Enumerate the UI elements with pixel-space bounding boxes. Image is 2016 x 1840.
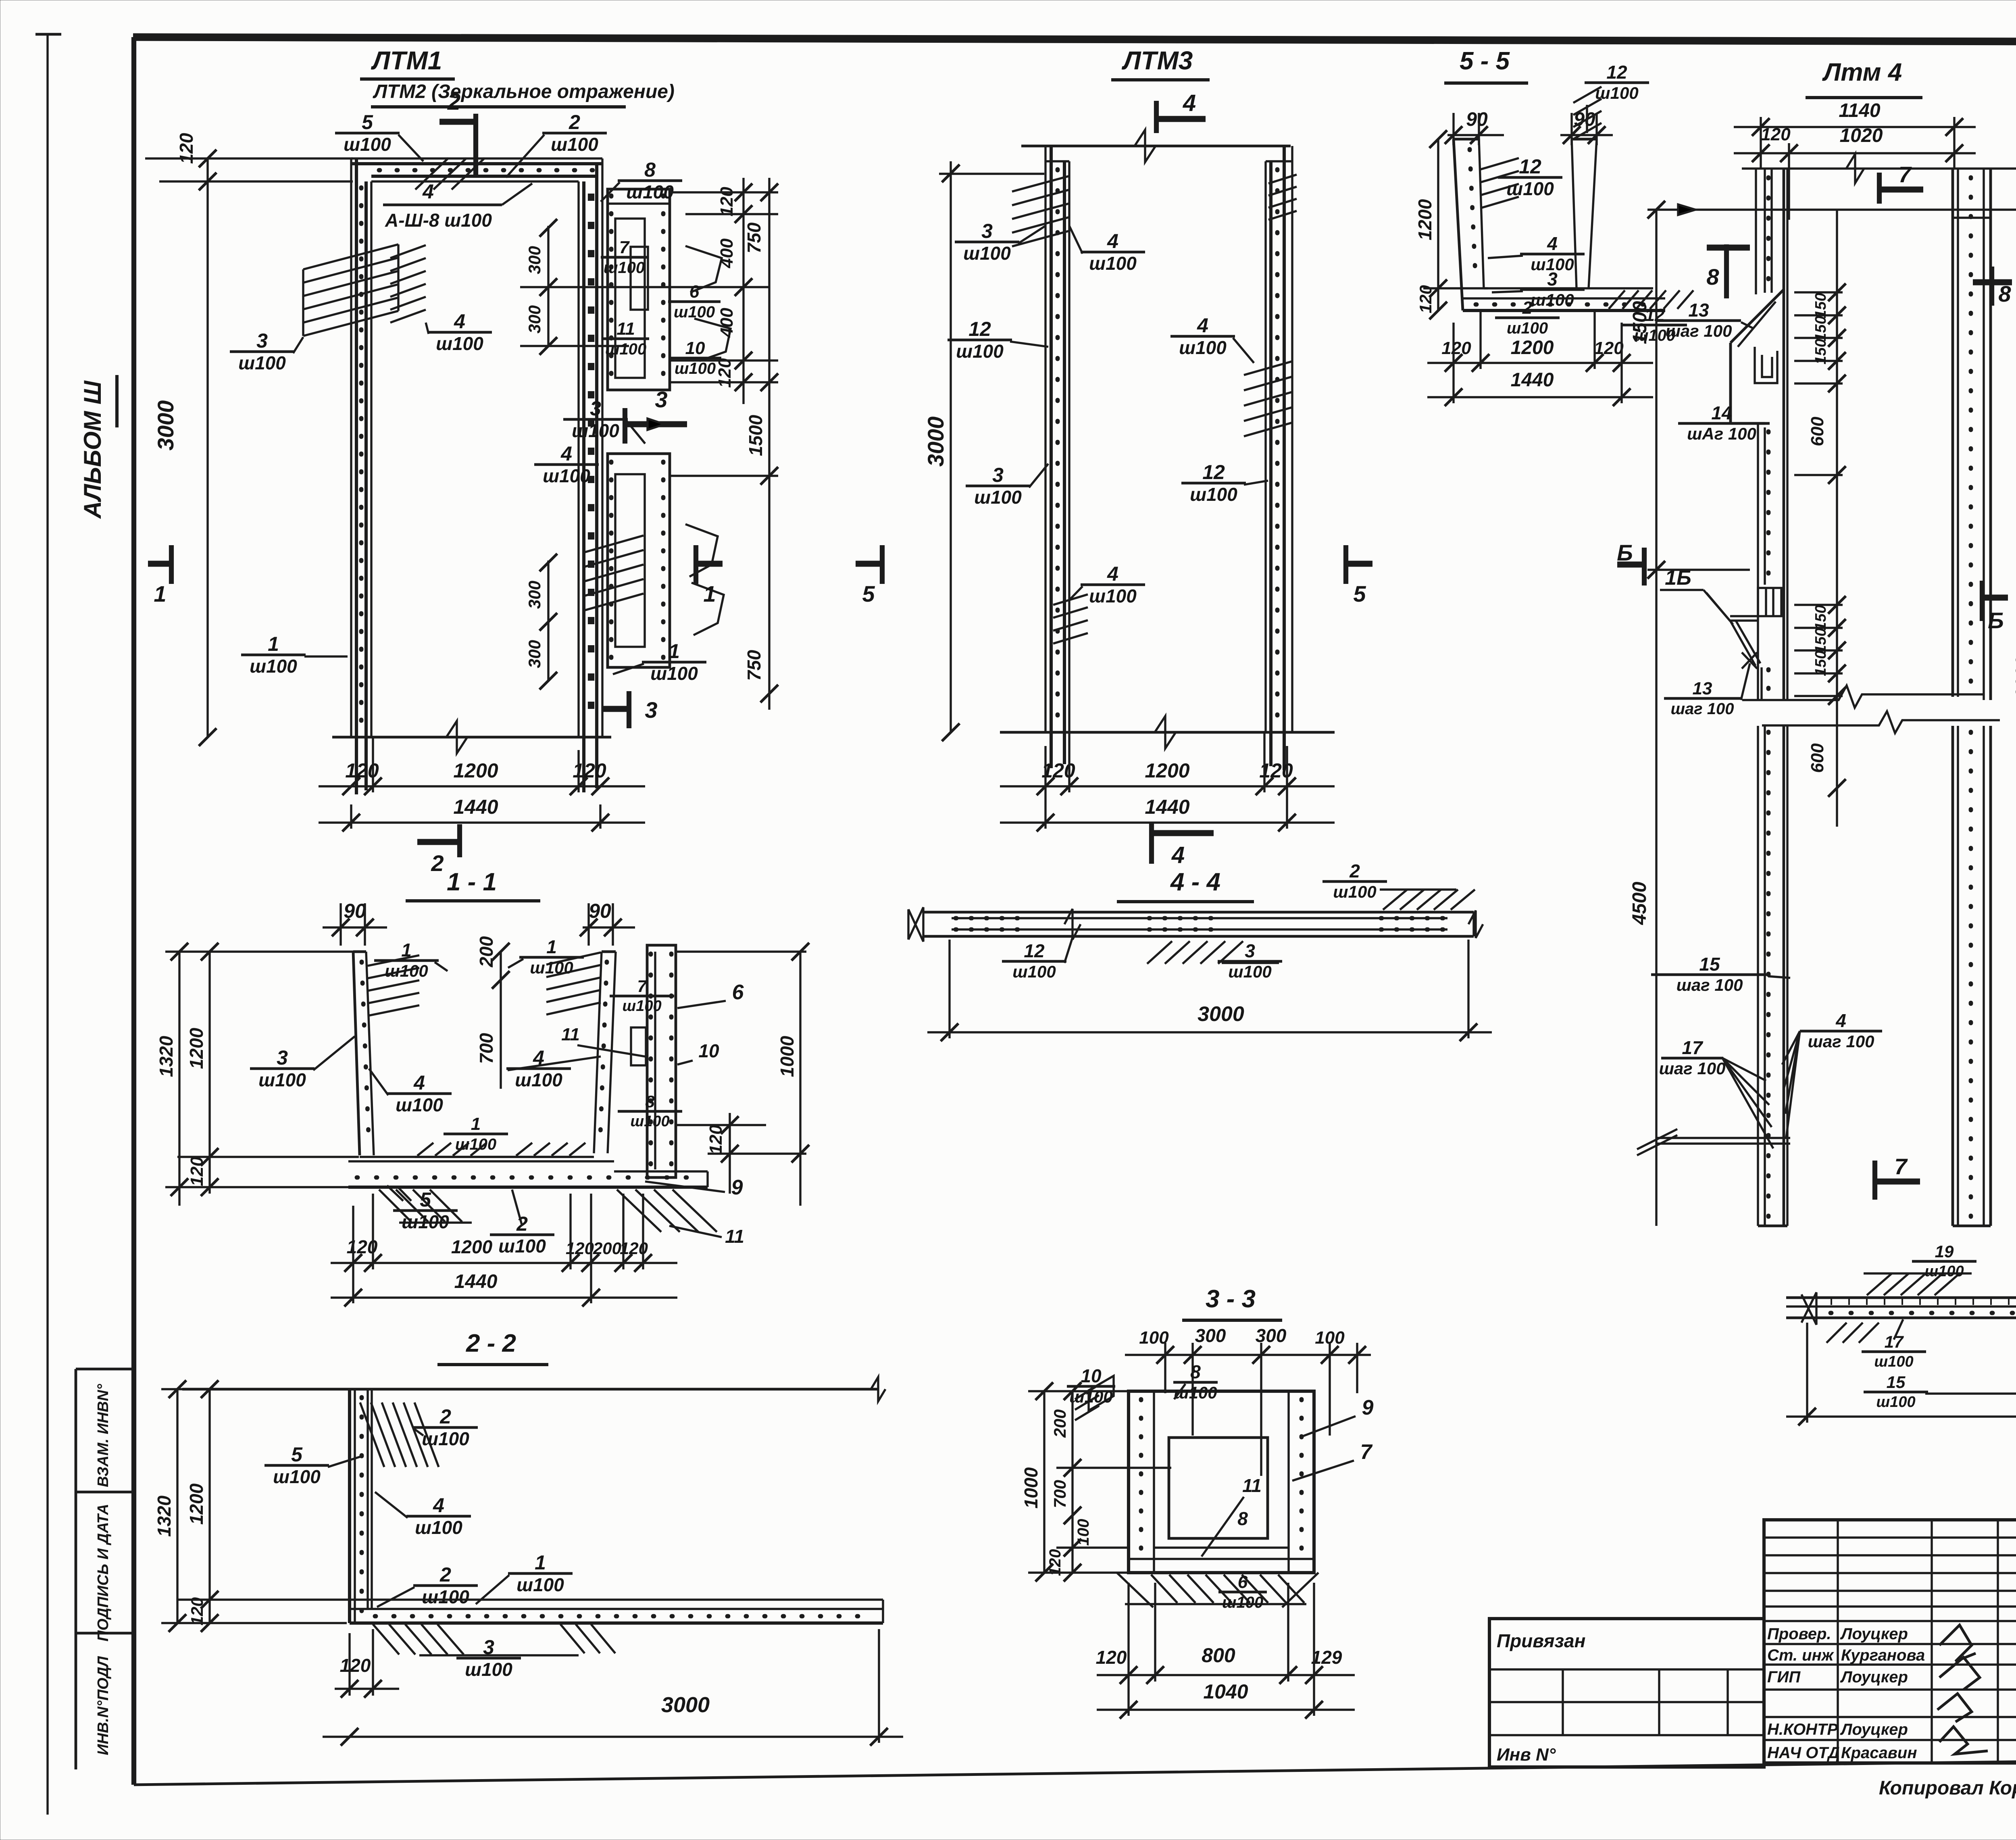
svg-text:120: 120 bbox=[340, 1655, 371, 1676]
svg-text:1 - 1: 1 - 1 bbox=[447, 868, 497, 896]
LTM4 left wall below break bbox=[1757, 726, 1759, 1226]
svg-text:300: 300 bbox=[525, 581, 544, 609]
svg-text:шаг 100: шаг 100 bbox=[1808, 1032, 1874, 1051]
svg-text:11: 11 bbox=[561, 1025, 580, 1044]
svg-text:4 - 4: 4 - 4 bbox=[1170, 868, 1220, 896]
svg-text:11: 11 bbox=[1242, 1475, 1262, 1496]
svg-text:800: 800 bbox=[1202, 1644, 1235, 1667]
svg-text:3: 3 bbox=[655, 387, 667, 412]
svg-text:ш100: ш100 bbox=[250, 656, 297, 677]
svg-text:11: 11 bbox=[725, 1226, 744, 1247]
svg-text:11: 11 bbox=[616, 319, 635, 339]
LTM1 right dim chain inner bbox=[742, 178, 744, 404]
svg-text:4: 4 bbox=[413, 1071, 425, 1094]
LTM1 bottom dim line 1 bbox=[319, 785, 645, 787]
hatch bundle LTM3 right top bbox=[1268, 175, 1297, 183]
signature scribbles bbox=[1939, 1625, 1976, 1661]
below slab hatch right step bbox=[617, 1190, 661, 1232]
svg-text:5: 5 bbox=[362, 111, 373, 133]
svg-text:13: 13 bbox=[1693, 679, 1712, 698]
svg-text:ш100: ш100 bbox=[1876, 1394, 1915, 1411]
svg-text:600: 600 bbox=[1808, 417, 1827, 446]
svg-text:НАЧ ОТД: НАЧ ОТД bbox=[1767, 1744, 1840, 1762]
svg-text:ш100: ш100 bbox=[543, 465, 590, 486]
svg-text:ш100: ш100 bbox=[455, 1136, 496, 1153]
LTM1 right upper small insert bbox=[631, 247, 648, 310]
svg-text:ш100: ш100 bbox=[650, 663, 698, 684]
section flag 8 right bbox=[1989, 267, 1994, 306]
svg-text:1200: 1200 bbox=[186, 1027, 207, 1069]
svg-text:3000: 3000 bbox=[923, 417, 948, 467]
svg-text:1320: 1320 bbox=[156, 1036, 177, 1077]
svg-text:Лоуцкер: Лоуцкер bbox=[1840, 1721, 1908, 1738]
svg-text:Привязан: Привязан bbox=[1497, 1630, 1585, 1651]
svg-text:7: 7 bbox=[637, 977, 647, 996]
svg-text:1000: 1000 bbox=[777, 1036, 798, 1077]
svg-text:2 - 2: 2 - 2 bbox=[466, 1329, 516, 1357]
svg-text:2: 2 bbox=[439, 1405, 451, 1428]
hatch 4-4 mid bbox=[1147, 941, 1172, 964]
privyazan box bbox=[1489, 1619, 1764, 1767]
1-1 left dim chain outer bbox=[178, 952, 180, 1206]
svg-text:ш100: ш100 bbox=[422, 1428, 469, 1449]
svg-text:1200: 1200 bbox=[1511, 337, 1554, 358]
LTM3 left wall bbox=[1044, 146, 1046, 732]
svg-text:ш100: ш100 bbox=[1179, 337, 1227, 358]
svg-text:400: 400 bbox=[717, 238, 737, 269]
svg-text:ш100: ш100 bbox=[630, 1113, 669, 1130]
section flag 2 bottom bbox=[417, 839, 460, 845]
1-1 right wall bbox=[594, 952, 602, 1153]
title block signature rows bbox=[1764, 1643, 2016, 1645]
svg-text:3: 3 bbox=[590, 397, 601, 420]
section flag 2 top bbox=[439, 119, 476, 125]
svg-text:1: 1 bbox=[703, 581, 716, 606]
svg-text:шаг 100: шаг 100 bbox=[1677, 975, 1743, 994]
svg-text:1: 1 bbox=[471, 1114, 481, 1134]
svg-text:АЛЬБОМ Ш: АЛЬБОМ Ш bbox=[79, 380, 106, 519]
svg-text:4: 4 bbox=[422, 180, 434, 203]
LTM4 left dim chain bbox=[1655, 210, 1657, 1226]
svg-text:ш100: ш100 bbox=[605, 340, 646, 358]
3-3 top left insert bbox=[1089, 1376, 1114, 1411]
corner registration mark bbox=[35, 33, 61, 36]
4-4 left break bbox=[908, 907, 923, 942]
svg-text:12: 12 bbox=[968, 318, 991, 340]
hatch 5-5 floor right bbox=[1609, 290, 1625, 309]
svg-text:8: 8 bbox=[1190, 1361, 1201, 1382]
svg-text:1: 1 bbox=[546, 936, 557, 957]
section flag 5 right bbox=[1346, 561, 1372, 567]
svg-text:14: 14 bbox=[1711, 402, 1732, 423]
LTM3 ground line bbox=[1000, 731, 1335, 734]
svg-text:ш100: ш100 bbox=[1924, 1263, 1964, 1280]
svg-text:3000: 3000 bbox=[661, 1693, 710, 1717]
svg-text:ш100: ш100 bbox=[1089, 586, 1137, 606]
svg-text:ш100: ш100 bbox=[465, 1659, 512, 1680]
LTM1 right lower box inner bbox=[615, 474, 645, 647]
svg-text:2: 2 bbox=[431, 850, 444, 876]
svg-text:Провер.: Провер. bbox=[1767, 1625, 1831, 1643]
left margin stamp boxes bbox=[75, 1369, 77, 1769]
LTM4 right wall bbox=[1951, 169, 1954, 697]
LTM1 dim 120 top left bbox=[199, 173, 217, 190]
svg-text:3: 3 bbox=[277, 1046, 288, 1069]
below slab hatch left bbox=[379, 1190, 411, 1222]
border frame bbox=[133, 37, 2016, 43]
svg-text:12: 12 bbox=[1606, 62, 1627, 83]
svg-text:120: 120 bbox=[706, 1125, 726, 1154]
svg-text:1140: 1140 bbox=[1839, 100, 1881, 121]
svg-text:шаг 100: шаг 100 bbox=[1666, 321, 1732, 340]
svg-text:ш100: ш100 bbox=[1069, 1387, 1112, 1406]
svg-text:1200: 1200 bbox=[1414, 199, 1435, 240]
svg-text:ш100: ш100 bbox=[238, 352, 286, 373]
3-3 floor lines bbox=[1129, 1558, 1314, 1560]
hatch bundle 1-1 top left bbox=[368, 955, 419, 966]
svg-text:3: 3 bbox=[1547, 269, 1558, 290]
5-5 left wall bbox=[1454, 139, 1463, 310]
LTM1 inner 300 dim chain upper bbox=[547, 226, 549, 347]
5-5 floor bbox=[1484, 287, 1653, 289]
svg-text:1: 1 bbox=[154, 581, 166, 606]
LTM3 top line bbox=[1021, 145, 1291, 148]
svg-text:ИНВ.N°ПОДЛ: ИНВ.N°ПОДЛ bbox=[95, 1656, 112, 1755]
section flag B right bbox=[1980, 581, 1985, 621]
5-5 right wall bbox=[1589, 139, 1597, 288]
section flag B left bbox=[1642, 548, 1647, 586]
svg-text:ш100: ш100 bbox=[604, 259, 645, 277]
LTM1 right lower box outer bbox=[608, 454, 670, 667]
svg-text:Н.КОНТР: Н.КОНТР bbox=[1767, 1721, 1838, 1738]
LTM4 left wall lower bbox=[1757, 423, 1759, 700]
4-4 right end bbox=[1472, 912, 1475, 936]
svg-text:150: 150 bbox=[1812, 339, 1829, 364]
LTM1 right wall bbox=[577, 181, 579, 737]
hatch bundle rebar 3 bbox=[303, 244, 398, 269]
section flag 3 right bbox=[625, 421, 687, 427]
svg-text:6: 6 bbox=[1238, 1572, 1248, 1592]
svg-text:3: 3 bbox=[256, 329, 268, 352]
svg-text:17: 17 bbox=[1682, 1037, 1704, 1058]
svg-text:Лтм 4: Лтм 4 bbox=[1822, 58, 1902, 86]
svg-text:ш100: ш100 bbox=[1531, 290, 1574, 309]
svg-text:120: 120 bbox=[1441, 338, 1471, 358]
svg-text:ш100: ш100 bbox=[422, 1586, 469, 1607]
svg-text:ш100: ш100 bbox=[956, 341, 1004, 362]
svg-text:13: 13 bbox=[1688, 300, 1709, 321]
svg-text:12: 12 bbox=[1519, 155, 1541, 178]
section flag 4 top bbox=[1154, 101, 1159, 133]
svg-text:3 - 3: 3 - 3 bbox=[1206, 1285, 1256, 1313]
svg-text:ш100: ш100 bbox=[551, 134, 598, 155]
svg-text:9: 9 bbox=[1362, 1396, 1374, 1419]
LTM4 corbel 2 bbox=[1730, 615, 1757, 617]
svg-text:120: 120 bbox=[187, 1597, 206, 1625]
svg-text:ш100: ш100 bbox=[1012, 962, 1056, 981]
svg-text:ш100: ш100 bbox=[674, 303, 715, 321]
sheet margin line left bbox=[46, 34, 48, 1815]
svg-text:8: 8 bbox=[645, 1092, 655, 1111]
section flag 1 left bbox=[148, 561, 171, 567]
svg-text:ш100: ш100 bbox=[344, 134, 391, 155]
svg-text:ш100: ш100 bbox=[622, 998, 661, 1015]
svg-text:150: 150 bbox=[1812, 628, 1829, 653]
svg-text:5: 5 bbox=[291, 1443, 303, 1466]
svg-text:ш100: ш100 bbox=[1507, 319, 1548, 337]
svg-text:1200: 1200 bbox=[1145, 759, 1189, 782]
svg-text:200: 200 bbox=[1050, 1409, 1069, 1438]
svg-text:4: 4 bbox=[1547, 233, 1558, 254]
svg-text:15: 15 bbox=[1887, 1373, 1906, 1392]
svg-text:1320: 1320 bbox=[154, 1495, 175, 1537]
svg-text:150: 150 bbox=[1812, 605, 1829, 630]
1-1 floor hatch strip bbox=[417, 1143, 433, 1156]
svg-text:ш100: ш100 bbox=[273, 1466, 321, 1487]
1-1 left dim chain inner bbox=[208, 952, 210, 1194]
svg-text:Лоуцкер: Лоуцкер bbox=[1840, 1625, 1908, 1643]
svg-text:ш100: ш100 bbox=[626, 181, 674, 202]
svg-text:6: 6 bbox=[732, 981, 744, 1004]
svg-text:2: 2 bbox=[1349, 861, 1360, 881]
svg-text:ш100: ш100 bbox=[1874, 1353, 1913, 1370]
svg-text:5: 5 bbox=[420, 1188, 431, 1211]
svg-text:3000: 3000 bbox=[1198, 1002, 1244, 1026]
3-3 below hatch bbox=[1151, 1575, 1177, 1603]
svg-text:1440: 1440 bbox=[453, 796, 498, 818]
svg-text:4: 4 bbox=[1107, 563, 1118, 585]
LTM4 break lines bbox=[1742, 686, 1984, 708]
svg-text:1: 1 bbox=[669, 640, 680, 663]
svg-text:1500: 1500 bbox=[1629, 301, 1651, 344]
svg-text:1500: 1500 bbox=[745, 415, 766, 456]
hatch bundle rebar 4 bbox=[390, 245, 426, 258]
svg-text:2: 2 bbox=[1522, 298, 1533, 318]
svg-text:2: 2 bbox=[439, 1563, 451, 1586]
LTM4 mid dim chain bbox=[1836, 210, 1838, 827]
svg-text:ПОДПИСЬ И ДАТА: ПОДПИСЬ И ДАТА bbox=[95, 1504, 112, 1642]
hatch bundle mid bbox=[584, 536, 644, 552]
svg-text:7: 7 bbox=[619, 238, 630, 257]
svg-text:1: 1 bbox=[535, 1551, 546, 1574]
svg-text:400: 400 bbox=[717, 308, 737, 338]
LTM1 left wall bbox=[350, 158, 352, 737]
svg-text:2: 2 bbox=[569, 111, 580, 133]
1-1 left wall bbox=[353, 952, 360, 1155]
svg-text:5: 5 bbox=[1353, 581, 1366, 606]
svg-text:шАг 100: шАг 100 bbox=[1687, 424, 1756, 443]
svg-text:600: 600 bbox=[1808, 743, 1827, 773]
svg-text:1200: 1200 bbox=[186, 1483, 207, 1525]
svg-text:6000: 6000 bbox=[2012, 656, 2016, 699]
svg-text:Лоуцкер: Лоуцкер bbox=[1840, 1668, 1908, 1686]
LTM3 right wall bbox=[1264, 161, 1266, 732]
hatch 4-4 top right bbox=[1383, 890, 1407, 910]
section flag 1 right bbox=[696, 561, 723, 567]
svg-text:ш100: ш100 bbox=[974, 487, 1022, 508]
svg-text:300: 300 bbox=[525, 246, 544, 274]
svg-text:5: 5 bbox=[862, 581, 875, 606]
LTM1 right upper box inner bbox=[615, 219, 645, 378]
title block signature columns bbox=[1764, 1520, 2016, 1763]
LTM4 corbel stirrup bbox=[1755, 347, 1777, 383]
LTM4 left wall upper bbox=[1755, 169, 1757, 294]
svg-text:4: 4 bbox=[1171, 842, 1185, 868]
svg-text:120: 120 bbox=[1761, 125, 1791, 144]
svg-text:7: 7 bbox=[1360, 1440, 1373, 1464]
LTM1 top wall hatch marks bbox=[415, 158, 448, 190]
3-3 below hatch wings bbox=[1117, 1573, 1153, 1607]
svg-text:Ст. инж: Ст. инж bbox=[1767, 1646, 1835, 1664]
svg-text:ш100: ш100 bbox=[258, 1069, 306, 1090]
svg-text:4500: 4500 bbox=[1629, 881, 1650, 925]
hatch bundle LTM3 right mid bbox=[1244, 361, 1292, 375]
svg-text:ЛТМ3: ЛТМ3 bbox=[1122, 46, 1193, 75]
svg-text:750: 750 bbox=[744, 222, 764, 253]
svg-text:300: 300 bbox=[525, 640, 544, 668]
svg-text:ш100: ш100 bbox=[402, 1211, 449, 1232]
svg-text:1200: 1200 bbox=[453, 759, 498, 782]
extension verticals bottom bbox=[350, 804, 352, 829]
svg-text:ш100: ш100 bbox=[530, 958, 573, 977]
hatch 2-2 wall top bbox=[360, 1402, 384, 1467]
1-1 floor slab bbox=[360, 1156, 594, 1158]
LTM1 top wall bbox=[351, 157, 602, 159]
svg-text:90: 90 bbox=[589, 900, 611, 922]
hatch 2-2 below floor bbox=[373, 1624, 399, 1655]
3-3 left dim chains bbox=[1043, 1391, 1045, 1573]
svg-text:1440: 1440 bbox=[454, 1271, 498, 1292]
svg-text:3: 3 bbox=[1245, 940, 1255, 961]
2-2 right end break bbox=[871, 1377, 885, 1401]
svg-text:ш100: ш100 bbox=[498, 1236, 546, 1257]
svg-text:129: 129 bbox=[1311, 1647, 1342, 1668]
svg-text:3: 3 bbox=[981, 220, 993, 242]
svg-text:150: 150 bbox=[1812, 316, 1829, 341]
svg-text:шаг 100: шаг 100 bbox=[1670, 700, 1734, 718]
svg-text:2: 2 bbox=[447, 89, 460, 115]
svg-text:12: 12 bbox=[1202, 461, 1225, 483]
7-7 slab bbox=[1786, 1296, 2016, 1299]
LTM1 right extension lines bbox=[670, 191, 778, 193]
svg-text:1440: 1440 bbox=[1145, 796, 1189, 818]
svg-text:8: 8 bbox=[644, 158, 656, 181]
LTM4 top line bbox=[1742, 167, 2016, 169]
svg-text:200: 200 bbox=[476, 936, 497, 967]
7-7 left break bbox=[1801, 1292, 1816, 1325]
svg-text:120: 120 bbox=[1096, 1647, 1127, 1668]
svg-text:А-Ш-8 ш100: А-Ш-8 ш100 bbox=[385, 210, 492, 231]
svg-text:19: 19 bbox=[1935, 1242, 1954, 1261]
svg-text:4: 4 bbox=[454, 310, 465, 333]
5-5 bottom dims bbox=[1427, 362, 1653, 364]
svg-text:8: 8 bbox=[1706, 264, 1719, 290]
svg-text:300: 300 bbox=[1195, 1325, 1226, 1346]
svg-text:Б: Б bbox=[1988, 608, 2004, 633]
svg-text:4: 4 bbox=[560, 442, 572, 465]
svg-text:1: 1 bbox=[268, 633, 279, 655]
svg-text:300: 300 bbox=[1256, 1325, 1287, 1346]
svg-text:90: 90 bbox=[1466, 109, 1488, 130]
svg-text:Курганова: Курганова bbox=[1841, 1646, 1925, 1664]
LTM3 bottom dim line 1 bbox=[1000, 785, 1335, 787]
svg-text:4: 4 bbox=[1107, 230, 1118, 252]
squiggle bracket right bbox=[685, 246, 722, 292]
svg-text:Красавин: Красавин bbox=[1841, 1744, 1917, 1762]
4-4 slab bbox=[923, 911, 1474, 914]
hatch bundle 1-1 top right bbox=[546, 952, 601, 965]
5-5 left dim chain bbox=[1437, 139, 1439, 310]
svg-text:150: 150 bbox=[1812, 650, 1829, 676]
section flag 3 bottom bbox=[603, 706, 629, 712]
svg-text:8: 8 bbox=[1998, 281, 2011, 306]
2-2 top line bbox=[182, 1388, 879, 1391]
svg-text:90: 90 bbox=[344, 900, 366, 922]
hatch 5-5 top left bbox=[1481, 158, 1519, 169]
section flag 4 bottom bbox=[1149, 823, 1154, 864]
2-2 wall bbox=[348, 1389, 351, 1623]
LTM1 bottom dim line 2 bbox=[319, 821, 645, 823]
4-4 rebar dots bbox=[956, 916, 1026, 921]
svg-text:Копировал Коршунова: Копировал Коршунова bbox=[1879, 1777, 2016, 1799]
svg-text:100: 100 bbox=[1075, 1519, 1092, 1546]
svg-text:10: 10 bbox=[1081, 1365, 1102, 1386]
svg-text:4: 4 bbox=[1835, 1010, 1846, 1031]
svg-text:1040: 1040 bbox=[1203, 1680, 1248, 1703]
svg-text:1: 1 bbox=[401, 940, 412, 961]
3-3 outer box bbox=[1129, 1391, 1314, 1573]
svg-text:700: 700 bbox=[1050, 1480, 1069, 1508]
LTM4 right wall below break bbox=[1951, 726, 1954, 1226]
hatch 7-7 above left bbox=[1867, 1273, 1892, 1295]
svg-text:1200: 1200 bbox=[451, 1236, 493, 1257]
svg-text:1000: 1000 bbox=[1020, 1467, 1041, 1509]
svg-text:ш100: ш100 bbox=[675, 360, 716, 377]
svg-text:ш100: ш100 bbox=[436, 333, 483, 354]
svg-text:ш100: ш100 bbox=[1222, 1594, 1263, 1611]
section flag 7 bottom bbox=[1872, 1161, 1877, 1200]
svg-text:3000: 3000 bbox=[153, 400, 178, 451]
svg-text:ш100: ш100 bbox=[1089, 253, 1137, 274]
svg-text:ш100: ш100 bbox=[415, 1517, 462, 1538]
section flag 8 left bbox=[1707, 245, 1750, 251]
svg-text:10: 10 bbox=[698, 1040, 719, 1061]
svg-text:ЛТМ2 (Зеркальное отражение): ЛТМ2 (Зеркальное отражение) bbox=[373, 81, 675, 102]
svg-text:ш100: ш100 bbox=[1506, 178, 1554, 199]
svg-text:5 - 5: 5 - 5 bbox=[1460, 47, 1510, 75]
hatch bundle LTM3 top left bbox=[1012, 176, 1068, 192]
svg-text:7: 7 bbox=[1898, 162, 1912, 187]
svg-text:7: 7 bbox=[1894, 1154, 1908, 1179]
LTM1 left dim chain bbox=[206, 158, 208, 737]
svg-text:ЛТМ1: ЛТМ1 bbox=[371, 46, 442, 75]
svg-text:120: 120 bbox=[1594, 338, 1624, 358]
svg-text:15: 15 bbox=[1699, 954, 1720, 975]
2-2 left dim chains bbox=[176, 1389, 178, 1623]
4-4 bottom dim bbox=[927, 1031, 1492, 1033]
svg-text:300: 300 bbox=[525, 305, 544, 333]
svg-text:3: 3 bbox=[992, 464, 1004, 486]
LTM4 wall corbel step bbox=[1731, 290, 1784, 343]
svg-text:10: 10 bbox=[685, 338, 705, 358]
svg-text:3: 3 bbox=[645, 697, 657, 723]
svg-text:Инв N°: Инв N° bbox=[1497, 1745, 1556, 1765]
svg-text:120: 120 bbox=[187, 1157, 207, 1186]
1-1 bottom dims bbox=[331, 1262, 677, 1264]
svg-text:120: 120 bbox=[717, 187, 737, 217]
svg-text:1020: 1020 bbox=[1840, 125, 1883, 146]
svg-text:750: 750 bbox=[744, 650, 764, 681]
